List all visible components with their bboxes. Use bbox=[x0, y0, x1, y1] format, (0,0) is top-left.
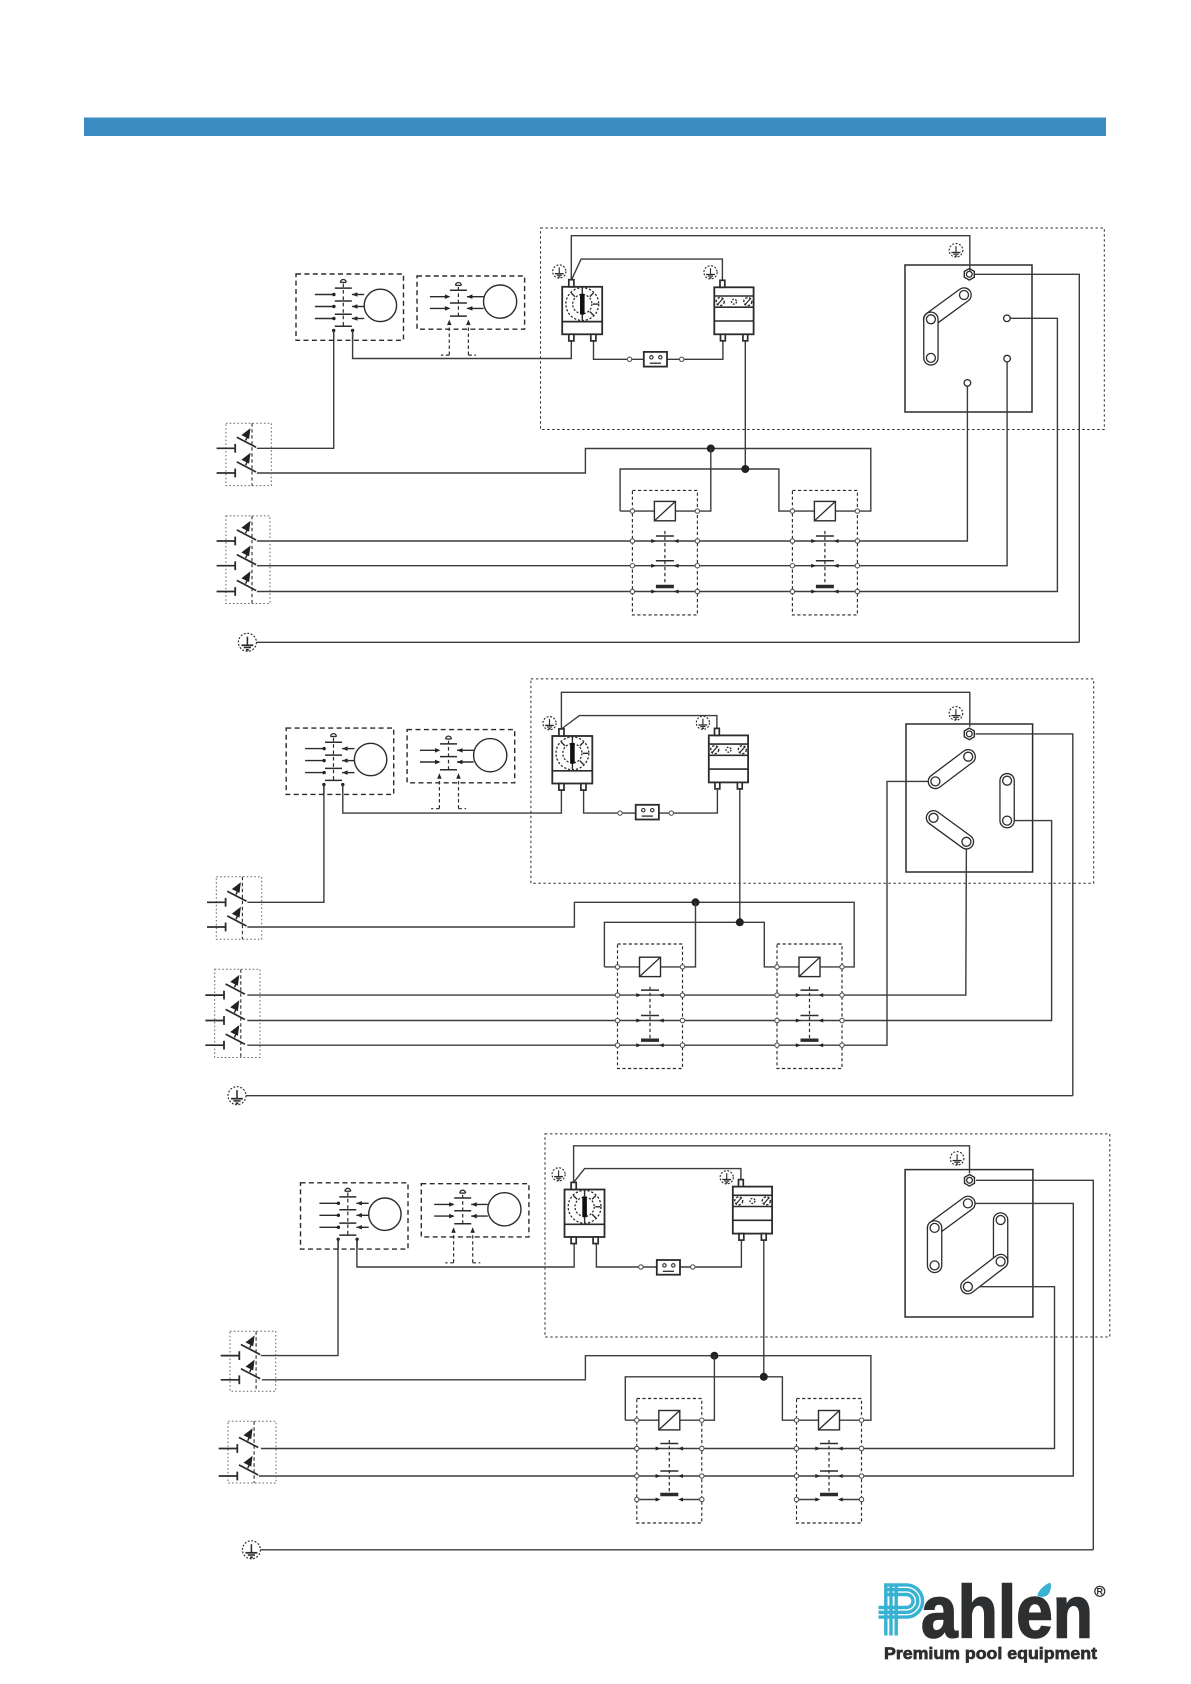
svg-text:Premium pool equipment: Premium pool equipment bbox=[884, 1644, 1097, 1663]
svg-text:ahlen: ahlen bbox=[921, 1571, 1093, 1654]
svg-text:R: R bbox=[1097, 1587, 1104, 1597]
